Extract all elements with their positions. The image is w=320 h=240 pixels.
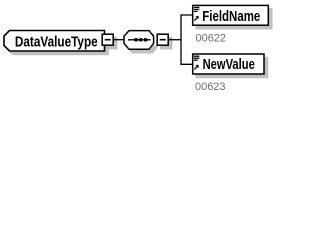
svg-text:DataValueType: DataValueType [15,34,98,51]
svg-text:NewValue: NewValue [203,56,255,73]
svg-text:00623: 00623 [195,81,226,93]
svg-text:00622: 00622 [196,33,227,45]
svg-text:FieldName: FieldName [202,8,260,25]
